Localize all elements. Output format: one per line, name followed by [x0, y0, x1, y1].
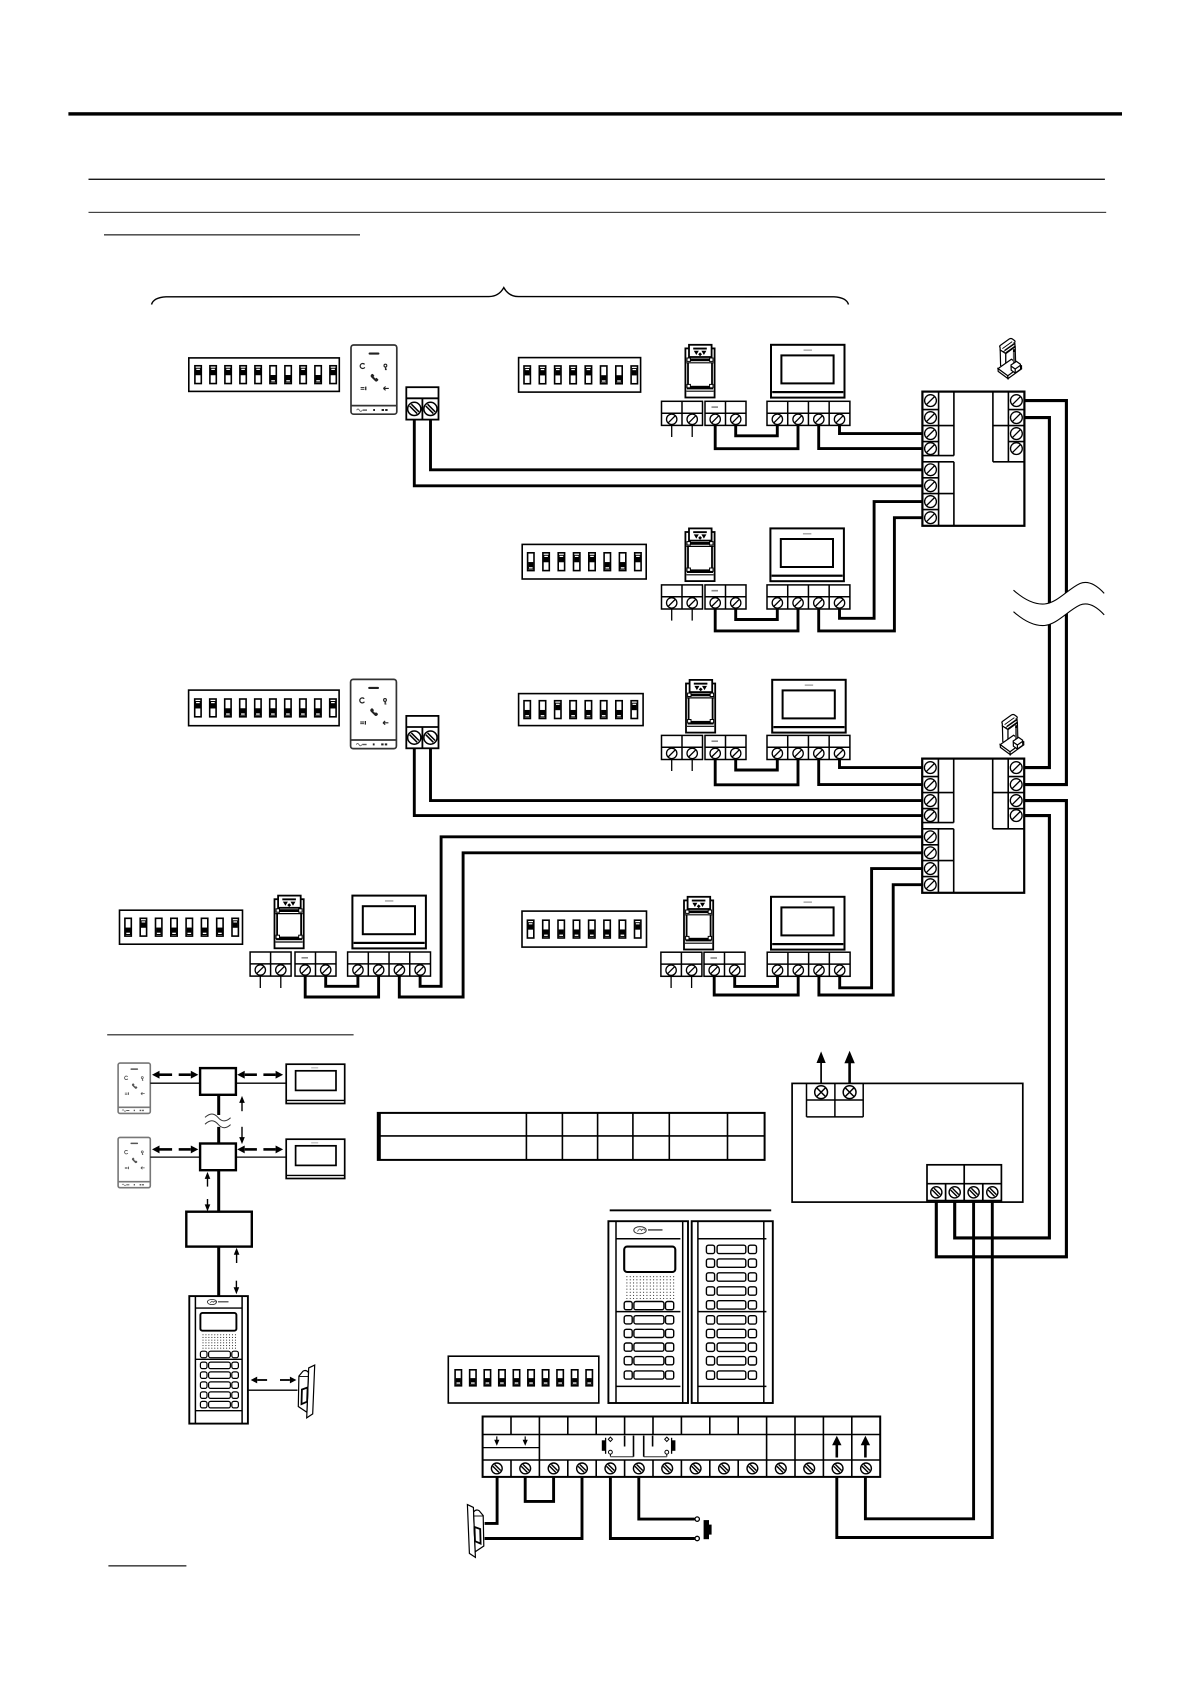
stub wire PSU1 terminal 2 [691, 425, 693, 437]
floor distributor D1 [922, 392, 1024, 526]
riser bus D2 row3 down to PSU terminal 1 [936, 801, 1066, 1257]
brace over apartment groups [152, 288, 849, 305]
arrow up trunk2 [205, 1172, 211, 1187]
video monitor M1 [771, 345, 845, 398]
arrow right guard-strike [280, 1377, 296, 1384]
wire TB1-2 to TM1-1 [736, 425, 778, 435]
footnote underline [108, 1565, 186, 1566]
lock relay contact 2 [644, 1436, 676, 1457]
riser bus D1 row1 to D2 row2 [1024, 401, 1066, 785]
P-left speaker grille [626, 1276, 674, 1299]
riser break (wavy cut) [1014, 583, 1105, 626]
P-right call button row 7 [706, 1329, 756, 1337]
strip arrow down terminal 1 [494, 1436, 499, 1445]
P-right call button row 2 [706, 1259, 756, 1267]
audio door phone T1 [351, 345, 397, 414]
P-left call button row 1 [624, 1316, 674, 1324]
monitor terminal block TM1 [767, 401, 850, 425]
P-right call button row 3 [706, 1273, 756, 1281]
video monitor M2 [770, 528, 844, 581]
arrow down trunk1 [239, 1127, 245, 1144]
video monitor M4 [352, 896, 426, 949]
terminal block TB2 [705, 585, 746, 609]
arrow left G1-B1 [152, 1071, 172, 1079]
terminal block TA2 [662, 585, 703, 609]
video monitor M3 [772, 680, 846, 733]
guard panel button row 5 [200, 1401, 238, 1408]
electric door strike (guard door) [298, 1365, 314, 1418]
stub wire PSU5 terminal 2 [691, 976, 693, 988]
arrow down to guard panel [234, 1281, 240, 1295]
wire TM1-4 to distributor D1 row3 [840, 425, 923, 433]
wire TB3-1 to TM3-2 [715, 760, 798, 785]
P-left bottom divider [616, 1385, 680, 1387]
DIP switch block SW4 [189, 690, 340, 726]
P-right call button row 10 [706, 1371, 756, 1379]
power supply PSU4 [275, 896, 304, 949]
video monitor LM2 [286, 1139, 345, 1178]
guard panel mid divider [195, 1358, 242, 1360]
stub wire PSU2 terminal 2 [691, 609, 693, 621]
power supply PSU5 [684, 897, 713, 950]
power supply PSU3 [686, 680, 715, 733]
junction box B2 [200, 1144, 236, 1171]
terminal block TA5 [661, 952, 702, 976]
P-right call button row 9 [706, 1357, 756, 1365]
street panel title line [610, 1209, 772, 1211]
guard panel button row 0 [200, 1351, 238, 1358]
stub wire PSU3 terminal 2 [691, 760, 693, 772]
electric door strike (street door) [467, 1505, 483, 1558]
wire TM2-3 up to D1 row8 [819, 518, 923, 631]
line guard panel to strike [248, 1389, 298, 1391]
monitor terminal block TM4 [348, 952, 431, 976]
wire terminal 1 to strike [485, 1477, 498, 1523]
wire PSU out4 to street terminal 13 [837, 1201, 993, 1538]
riser bus D2 row4 down to PSU terminal 2 [955, 816, 1050, 1238]
stub wire PSU4 terminal 2 [280, 976, 282, 988]
riser trunk below break [217, 1127, 220, 1144]
video monitor M5 [771, 897, 845, 950]
guard panel display [200, 1313, 236, 1331]
header thin rule 2 [89, 212, 1107, 213]
audio door phone G2 [118, 1137, 150, 1187]
wire TM1-3 to distributor D1 row4 [819, 425, 923, 448]
street panel P-left frame [608, 1221, 688, 1403]
DIP switch block SW1 (apartment 1 programming) [189, 358, 339, 392]
audio door phone T2 [351, 679, 397, 748]
guard panel top divider [195, 1307, 242, 1309]
terminal connector CN2 [406, 716, 438, 748]
wire PSU out3 to street terminal 14 [865, 1201, 973, 1519]
mains terminal L (circle-X) [815, 1086, 828, 1099]
wire CN2 left screw to D2 row4 [414, 748, 922, 815]
video monitor LM1 [286, 1064, 345, 1103]
junction box B1 [200, 1068, 236, 1095]
wire TB1-1 to TM1-2 [715, 425, 798, 448]
audio door phone G1 [118, 1063, 150, 1113]
section 2 title underline [107, 1034, 353, 1036]
riser trunk above break [217, 1095, 220, 1115]
P-right call button row 4 [706, 1287, 756, 1295]
arrow right B2-LM2 [263, 1145, 283, 1153]
arrow left guard-strike [251, 1377, 267, 1384]
terminal block TB4 [295, 952, 336, 976]
line G1 to B1 [150, 1082, 200, 1084]
monitor terminal block TM2 [767, 585, 850, 609]
power supply PSU2 [685, 528, 714, 581]
configuration jumper J2 [1000, 715, 1024, 755]
wire terminal 5 to push button [610, 1477, 694, 1539]
street panel P-right frame [692, 1221, 773, 1403]
arrow left B2-LM2 [237, 1145, 257, 1153]
wire TB4-1 to TM4-2 [305, 976, 378, 997]
guard panel logo [207, 1299, 228, 1304]
arrow up trunk1 [239, 1096, 245, 1111]
line B2 to LM2 [236, 1156, 286, 1158]
P-right call button row 6 [706, 1316, 756, 1324]
P-right call button row 8 [706, 1343, 756, 1351]
section title underline [104, 234, 360, 236]
terminal connector CN1 [406, 387, 438, 419]
DIP switch block SW5 [519, 694, 644, 726]
wire TB5-2 to TM5-1 [735, 976, 778, 986]
PSU box output terminal block [927, 1165, 1001, 1201]
P-left call button row 3 [624, 1343, 674, 1351]
floor distributor D2 [922, 759, 1024, 893]
P-right bottom divider [698, 1385, 766, 1387]
P-right top divider [698, 1238, 766, 1240]
door release push button [695, 1517, 712, 1541]
terminal block TA4 [250, 952, 291, 976]
configuration jumper J1 [998, 339, 1022, 379]
arrow left B1-LM1 [237, 1071, 257, 1079]
monitor terminal block TM5 [767, 952, 850, 976]
arrow down trunk2 [205, 1199, 211, 1211]
DIP switch block SW7 [522, 911, 647, 947]
wire TM5-3 up to D2 row8 [819, 885, 922, 995]
DIP switch block SW8 (street panel) [448, 1356, 599, 1403]
wire TM3-3 to D2 row2 [819, 760, 923, 785]
arrow right G1-B1 [179, 1071, 199, 1079]
P-left speaker window [624, 1247, 675, 1272]
stub wire PSU2 terminal 1 [671, 609, 673, 621]
terminal block TB1 [705, 401, 746, 425]
main power supply unit box [792, 1083, 1023, 1202]
arrow left G2-B2 [152, 1145, 172, 1153]
mains arrow L [817, 1051, 826, 1083]
P-left call button row 2 [624, 1329, 674, 1337]
strip sub-divider under arrows [483, 1447, 540, 1449]
strip arrow up terminal 13 [832, 1436, 841, 1458]
wire TB2-1 to TM2-2 [715, 609, 798, 631]
wire terminal 6 to push button [639, 1477, 695, 1519]
street panel connection strip [483, 1417, 881, 1477]
DIP switch block SW3 [522, 544, 646, 579]
mains arrow N [844, 1051, 854, 1084]
trunk break (wavy cut) [205, 1114, 231, 1128]
guard panel button row 3 [200, 1382, 238, 1389]
P-right mid divider [698, 1311, 766, 1313]
wire TM4-3 up to D2 row6 [399, 853, 922, 997]
junction box B3 [186, 1212, 252, 1247]
wire CN1 right screw to D1 row5 [431, 420, 923, 470]
wire CN1 left screw to D1 row6 [414, 420, 922, 486]
wire TB5-1 to TM5-2 [714, 976, 798, 995]
guard panel grille [202, 1334, 236, 1348]
lock relay contact 1 [602, 1436, 634, 1457]
P-right call button row 5 [706, 1301, 756, 1309]
riser bus D1 row2 to D2 row1 [1024, 418, 1049, 768]
terminal block TB5 [704, 952, 745, 976]
guard panel button row 2 [200, 1372, 238, 1379]
strip arrow up terminal 14 [861, 1436, 870, 1458]
line G2 to B2 [150, 1156, 200, 1158]
wire TM5-4 up to D2 row7 [840, 869, 923, 988]
wire TB4-2 to TM4-1 [326, 976, 358, 986]
wire terminal 4 to strike [485, 1477, 582, 1539]
P-left logo [634, 1227, 663, 1234]
strip arrow down terminal 2 [523, 1436, 528, 1445]
wire TM2-4 up to D1 row7 [840, 502, 923, 619]
arrow right B1-LM1 [263, 1071, 283, 1079]
wire TB2-2 to TM2-1 [736, 609, 778, 620]
guard panel button row 4 [200, 1392, 238, 1399]
wire CN2 right screw to D2 row3 [431, 748, 923, 800]
wire TB3-2 to TM3-1 [736, 760, 778, 771]
riser trunk B3 to guard panel [217, 1247, 220, 1297]
power supply PSU1 [685, 345, 714, 398]
P-left mid divider [616, 1311, 680, 1313]
stub wire PSU5 terminal 1 [670, 976, 672, 988]
riser trunk B2 to B3 [217, 1170, 220, 1212]
P-left call button row 0 [624, 1302, 674, 1310]
P-left top divider [616, 1238, 680, 1240]
monitor terminal block TM3 [767, 735, 850, 759]
terminal block TB3 [705, 735, 746, 759]
line B1 to LM1 [236, 1082, 286, 1084]
wire TM3-4 to D2 row1 [840, 760, 923, 768]
terminal block TA1 [662, 401, 703, 425]
P-left call button row 5 [624, 1371, 674, 1379]
DIP switch block SW6 [120, 910, 243, 944]
stub wire PSU1 terminal 1 [671, 425, 673, 437]
P-right call button row 1 [706, 1245, 756, 1253]
P-left call button row 4 [624, 1357, 674, 1365]
stub wire PSU3 terminal 1 [671, 760, 673, 772]
arrow up into B3 [234, 1248, 240, 1263]
guard panel button row 1 [200, 1362, 238, 1369]
wire TM4-4 up to D2 row5 [420, 837, 922, 987]
terminal block TA3 [662, 735, 703, 759]
mains terminal N (circle-X) [843, 1086, 856, 1099]
wire loop terminals 2-3 [525, 1477, 553, 1501]
arrow right G2-B2 [179, 1145, 199, 1153]
guard unit panel frame [189, 1296, 248, 1424]
cable table [378, 1113, 765, 1160]
header thick rule [68, 112, 1122, 115]
DIP switch block SW2 [519, 358, 641, 393]
stub wire PSU4 terminal 1 [259, 976, 261, 988]
guard panel bottom divider [195, 1410, 242, 1412]
header thin rule 1 [89, 179, 1105, 180]
